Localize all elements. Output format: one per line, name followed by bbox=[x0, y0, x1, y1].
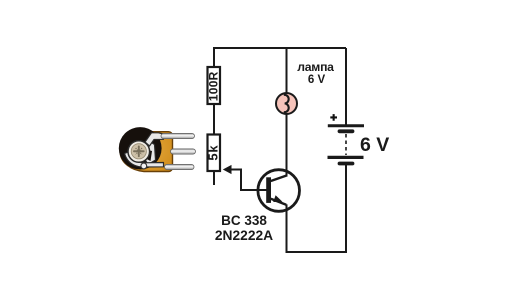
pot pin top bbox=[161, 133, 195, 138]
wiper arrow of R2 bbox=[223, 165, 232, 174]
svg-text:BC 338: BC 338 bbox=[221, 213, 267, 228]
wire collector branch (top rail through lamp) bbox=[286, 48, 288, 93]
pot body bbox=[120, 132, 172, 172]
pot wiper ring bbox=[128, 141, 150, 163]
svg-text:6 V: 6 V bbox=[308, 74, 326, 86]
wire top rail bbox=[214, 47, 346, 49]
battery BT1 6V bbox=[328, 114, 365, 163]
wire wiper to base bbox=[229, 170, 267, 191]
pot wiper right strip bbox=[144, 140, 156, 165]
wire battery bottom bbox=[345, 165, 347, 253]
svg-text:2N2222A: 2N2222A bbox=[215, 228, 273, 243]
wire bottom rail bbox=[286, 251, 347, 253]
wire left branch top bbox=[213, 47, 215, 67]
lamp filament bbox=[284, 95, 289, 112]
pot pin middle bbox=[171, 149, 196, 154]
potentiometer photo bbox=[119, 127, 196, 171]
lamp 6V bbox=[276, 93, 297, 114]
svg-text:100R: 100R bbox=[206, 71, 220, 101]
resistor R1 100R bbox=[206, 67, 220, 104]
pot wiper top arm bbox=[145, 133, 164, 146]
pot rotor disk bbox=[119, 127, 162, 169]
wire lamp to transistor collector bbox=[286, 114, 288, 176]
pot screw bbox=[131, 144, 146, 159]
svg-text:лампа: лампа bbox=[297, 60, 334, 74]
pot rivet bbox=[141, 163, 147, 169]
wire between R1 and R2 bbox=[213, 104, 215, 135]
wire battery top bbox=[345, 48, 347, 125]
wire stub below R2 bbox=[213, 171, 215, 185]
svg-text:5k: 5k bbox=[206, 145, 221, 161]
potentiometer R2 5k (schematic body) bbox=[206, 135, 221, 172]
pot contact blob bbox=[143, 149, 152, 161]
svg-text:6 V: 6 V bbox=[360, 134, 389, 156]
pot pin bottom bbox=[165, 164, 195, 169]
pot wiper lower band bbox=[125, 152, 164, 168]
transistor Q1 BC338 bbox=[258, 170, 300, 212]
wire emitter down bbox=[286, 204, 288, 252]
